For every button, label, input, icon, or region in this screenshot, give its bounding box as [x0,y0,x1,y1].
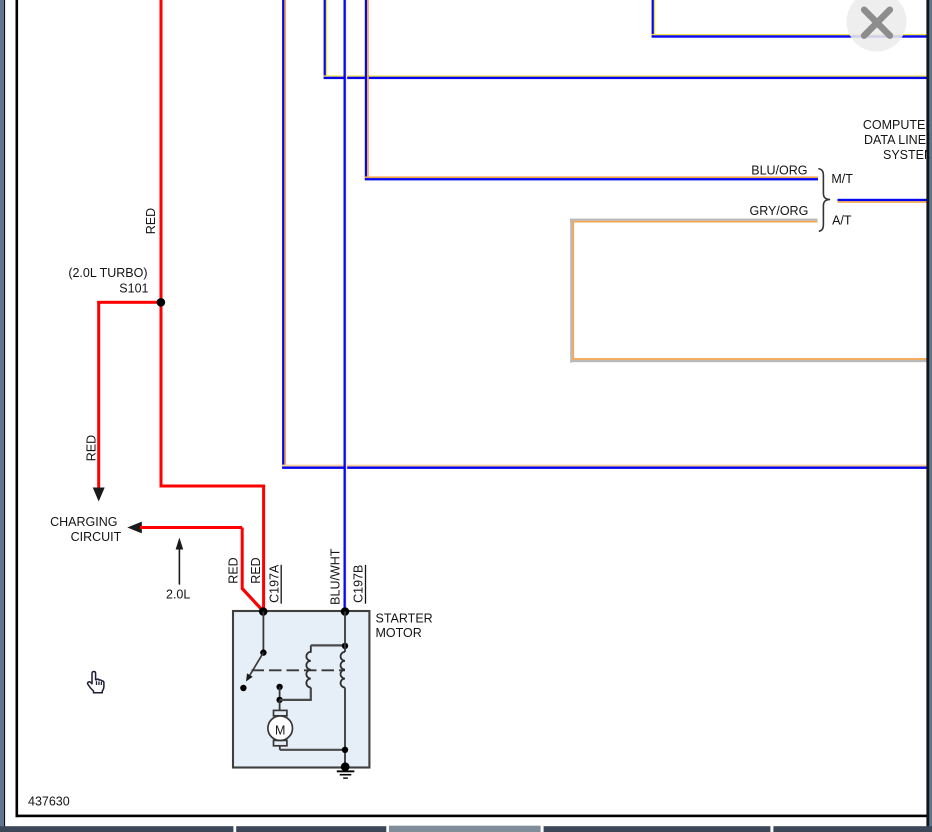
wire BLU/YEL top right (vertical then horizontal at y=35) [652,0,927,38]
ground symbol [337,770,355,778]
node junction dot C197B at box top [341,607,350,616]
bottom tab bar segment 4 [544,826,771,832]
wire RED horizontal jog to starter [160,485,266,613]
svg-text:M: M [275,723,285,737]
wire BLU/WHT to starter motor [344,0,348,612]
wire RED charging circuit branch [127,522,262,611]
label C197B connector [351,565,365,604]
node ground junction dot at box bottom [341,762,350,771]
starter motor box [233,611,369,768]
svg-text:S101: S101 [119,281,148,295]
svg-text:RED: RED [144,208,158,234]
wire BLU/ORG left (vertical then long horizontal) [282,0,927,469]
svg-text:CIRCUIT: CIRCUIT [71,530,122,544]
label CHARGING CIRCUIT [50,515,122,544]
svg-text:RED: RED [84,435,98,461]
coil L1 pull-in winding [306,645,310,687]
svg-text:BLU/ORG: BLU/ORG [751,164,807,178]
wire plunger to pull-in coil [280,688,311,701]
bottom tab bar segment 2 [236,826,386,832]
svg-text:STARTER: STARTER [376,611,433,625]
svg-text:C197B: C197B [351,565,365,603]
label STARTER MOTOR [376,611,433,640]
svg-text:BLU/WHT: BLU/WHT [328,548,342,605]
svg-text:437630: 437630 [28,795,70,809]
wire BLU/ORG to M/T brace [365,0,818,180]
svg-text:RED: RED [226,557,240,583]
svg-text:C197A: C197A [267,564,281,603]
wire BLU/ORG output from brace (M/T) [838,199,928,203]
svg-text:SYSTEM: SYSTEM [883,148,932,162]
panel thin dark line left [4,0,5,832]
bottom tab bar segment 3 (active) [389,826,541,832]
panel steel strip right [929,0,932,832]
node motor return junction dot [342,747,348,753]
frame border bottom [16,815,929,818]
svg-text:COMPUTER: COMPUTER [863,118,932,132]
switch (solenoid contact) inside starter [240,612,266,692]
label C197A connector [267,564,281,604]
wire GRY/ORG left vertical [570,219,574,363]
svg-text:CHARGING: CHARGING [50,515,117,529]
svg-text:MOTOR: MOTOR [376,626,422,640]
coil L2 hold-in winding on BLU/WHT leg [341,612,345,767]
svg-text:GRY/ORG: GRY/ORG [749,204,808,218]
wire RED main vertical (battery feed) [160,0,163,488]
label COMPUTER DATA LINES SYSTEM [863,118,932,162]
svg-text:2.0L: 2.0L [166,587,190,601]
wire GRY/ORG (A/T) top horizontal [570,219,818,223]
motor M armature [268,700,345,750]
close X button [847,0,907,52]
svg-text:M/T: M/T [831,172,853,186]
frame border right / panel edge dark [926,0,929,832]
panel steel strip left [0,0,4,832]
wire coil top link [311,644,345,646]
cursor hand pointer [88,672,104,693]
arrow 2.0L pointer [176,538,184,585]
brace for M/T / A/T wires [818,169,830,232]
plunger contacts [276,684,282,703]
bottom tab bar segment 1 [0,826,233,832]
wire RED S101 branch to charging circuit arrow [97,301,161,488]
node coil junction dot [342,643,348,649]
node junction dot C197A at box top [259,607,268,616]
wire BLU/YEL (vertical then horizontal at y=77) [324,0,927,79]
bottom tab bar segment 5 [773,826,932,832]
dashed mechanical link [252,669,346,671]
wire GRY/ORG bottom horizontal [570,358,927,362]
node S101 junction dot [157,298,166,307]
svg-text:RED: RED [249,557,263,583]
svg-text:DATA LINES: DATA LINES [864,133,932,147]
svg-text:(2.0L TURBO): (2.0L TURBO) [68,266,147,280]
frame border left [16,0,19,817]
arrowhead RED down (to charging circuit) [93,488,105,502]
svg-text:A/T: A/T [832,213,852,227]
